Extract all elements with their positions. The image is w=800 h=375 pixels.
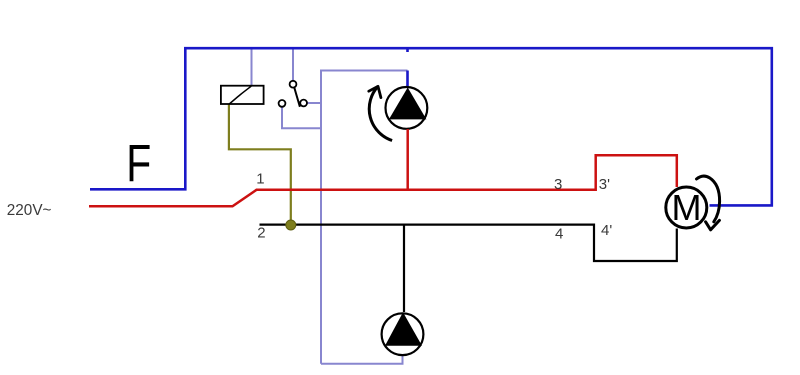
- svg-text:F: F: [126, 135, 151, 194]
- svg-text:3: 3: [554, 176, 562, 193]
- svg-text:4': 4': [601, 222, 612, 239]
- svg-text:4: 4: [555, 226, 563, 243]
- svg-text:2: 2: [257, 224, 265, 241]
- svg-text:1: 1: [256, 171, 264, 188]
- svg-text:3': 3': [599, 176, 610, 193]
- svg-text:M: M: [672, 187, 702, 228]
- svg-text:220V~: 220V~: [7, 202, 52, 219]
